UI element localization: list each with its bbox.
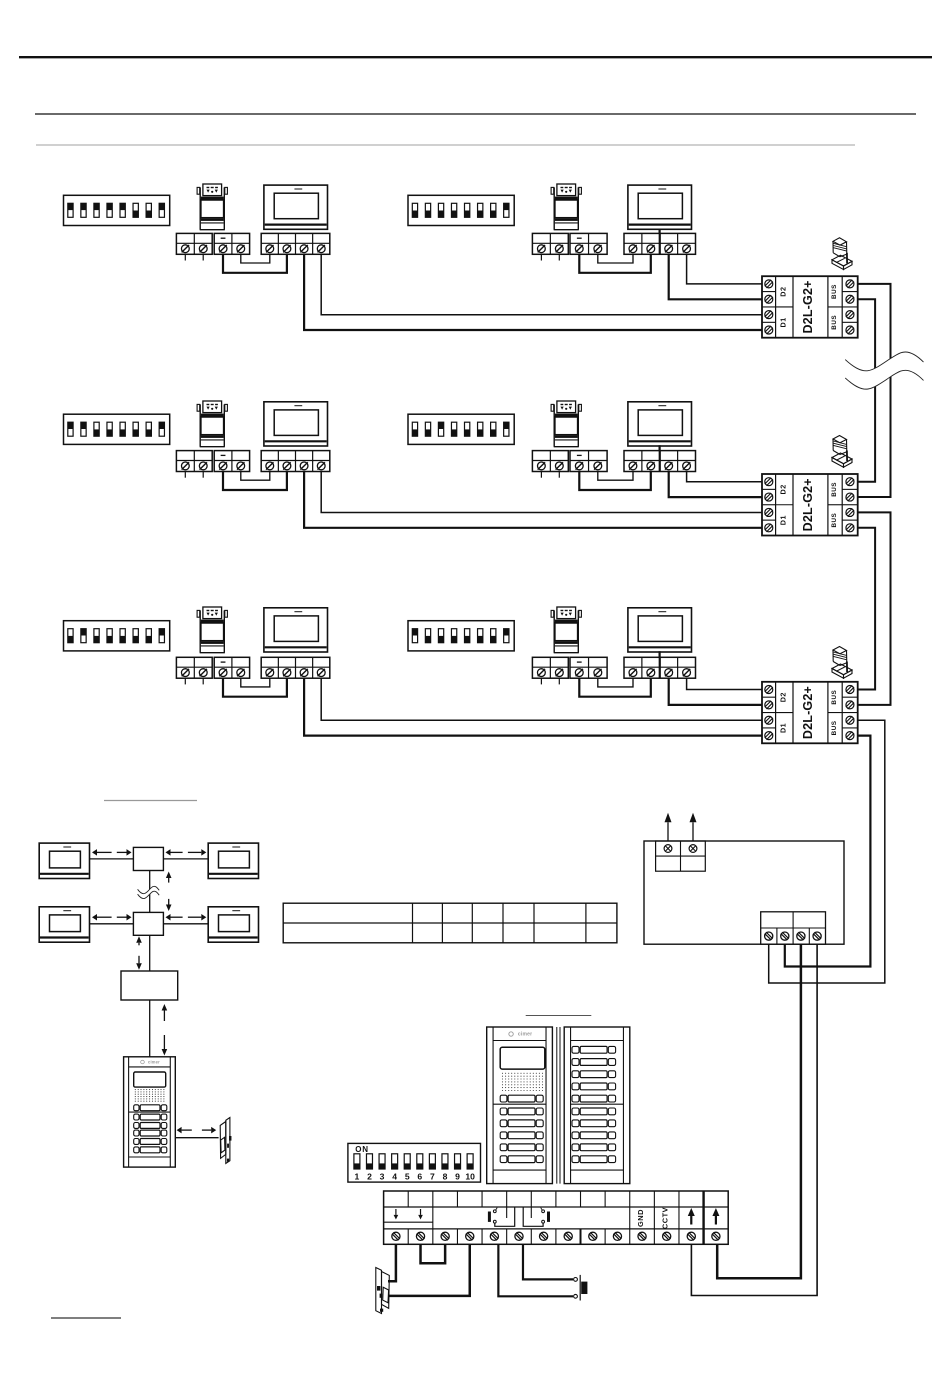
hook row 3 right inner — [598, 678, 633, 687]
svg-text:8: 8 — [443, 1171, 448, 1181]
bus jumper J2 — [832, 436, 852, 468]
mains stub row 2 left a — [184, 472, 186, 478]
svg-text:BUS: BUS — [831, 721, 838, 736]
wire DP1 to strike — [175, 1137, 218, 1139]
terminal block TB1A1 — [176, 233, 212, 254]
mains stub row 1 right a — [540, 254, 542, 260]
wire D2a row 1 — [687, 254, 762, 284]
power supply PS1B — [551, 184, 581, 230]
hook row 3 left outer — [223, 678, 287, 697]
entrance terminal strip — [384, 1191, 729, 1244]
arrow pair DP1 strike — [177, 1127, 217, 1134]
riser FD2-controller — [149, 935, 151, 971]
mains stub row 3 left b — [202, 678, 204, 684]
wire power to entrance b — [691, 944, 817, 1295]
svg-text:D1: D1 — [778, 515, 787, 525]
svg-text:D2L-G2+: D2L-G2+ — [801, 478, 815, 531]
arrow pair B left — [92, 914, 132, 921]
wire D1b row 3 — [304, 678, 762, 735]
arrow down FD1 to FD2 — [166, 899, 172, 911]
svg-text:BUS: BUS — [831, 690, 838, 705]
power supply PS2B — [551, 401, 581, 447]
wire power to entrance a — [717, 944, 801, 1278]
monitor M-A1 — [39, 843, 89, 878]
monitor M2B — [628, 402, 692, 446]
hook row 3 left inner — [241, 678, 270, 687]
svg-text:D1: D1 — [778, 723, 787, 733]
terminal block TB2B1 — [532, 451, 568, 472]
call buttons DP1 main — [134, 1114, 167, 1153]
svg-text:3: 3 — [380, 1171, 385, 1181]
svg-text:BUS: BUS — [831, 315, 838, 330]
riser bus wire 2-3 outer — [858, 512, 891, 704]
svg-text:4: 4 — [392, 1171, 397, 1181]
riser bus wire 1-2 inner — [858, 299, 875, 481]
terminal block TB2B3 — [624, 451, 696, 472]
riser wire to power supply b — [769, 720, 885, 983]
svg-text:BUS: BUS — [831, 482, 838, 497]
monitor M1A — [264, 185, 328, 229]
terminal block TB1A2 — [214, 233, 249, 254]
svg-text:D2L-G2+: D2L-G2+ — [801, 280, 815, 333]
arrow pair A left — [92, 849, 132, 856]
power supply PS3A — [197, 607, 227, 653]
brand logo DP1 — [141, 1059, 160, 1064]
svg-text:9: 9 — [455, 1171, 460, 1181]
bus jumper J1 — [832, 238, 852, 270]
terminal block TB3A2 — [214, 657, 249, 678]
strip link wire — [421, 1244, 446, 1263]
bus jumper J3 — [832, 647, 852, 679]
terminal block TB3A1 — [176, 657, 212, 678]
wire D2a row 2 — [687, 472, 762, 482]
header rule thin — [35, 113, 916, 115]
terminal block TB3A3 — [261, 657, 330, 678]
floor distributor box FD1 — [133, 847, 163, 870]
DIP switch block S1A — [64, 195, 170, 225]
module joint DP2 — [557, 1027, 560, 1184]
riser wire to power supply a — [785, 736, 871, 967]
floor distributor box FD2 — [133, 912, 163, 935]
arrow up FD2 to FD1 — [166, 872, 172, 883]
wire D1b row 2 — [304, 472, 762, 528]
speaker grille DP2 — [502, 1073, 543, 1091]
wire FD2 to monitor B2 — [163, 923, 208, 925]
wire monitor A1 to FD1 — [90, 858, 134, 860]
monitor M2A — [264, 402, 328, 446]
hook row 1 left inner — [241, 254, 270, 263]
wire D2b row 1 — [669, 254, 762, 299]
hook row 2 right outer — [579, 472, 651, 491]
header rule thick — [19, 56, 932, 58]
monitor M-B2 — [208, 907, 258, 942]
reference table — [283, 903, 617, 943]
svg-text:D1: D1 — [778, 317, 787, 327]
svg-text:D2: D2 — [778, 484, 787, 494]
riser controller box — [121, 971, 178, 1000]
mains stub row 1 right b — [558, 254, 560, 260]
terminal block TB1B1 — [532, 233, 568, 254]
hook row 2 left inner — [241, 472, 270, 481]
door strike LS1 — [220, 1118, 231, 1164]
call buttons DP1 top — [134, 1105, 167, 1111]
wire D1a row 3 — [321, 678, 762, 720]
wire exit button b — [523, 1244, 573, 1279]
mains arrows — [665, 813, 697, 841]
wire D1a row 2 — [321, 472, 762, 513]
wire FD1 to monitor A2 — [163, 858, 208, 860]
wire D2b row 3 — [669, 678, 762, 705]
power supply PS2A — [197, 401, 227, 447]
terminal block TB2A3 — [261, 451, 330, 472]
monitor M-A2 — [208, 843, 258, 878]
monitor feed stub row 1 — [658, 229, 660, 234]
monitor feed stub row 3 — [658, 651, 660, 657]
terminal block TB1B2 — [570, 233, 607, 254]
header rule gray — [36, 144, 855, 146]
svg-text:5: 5 — [405, 1171, 410, 1181]
monitor M1B — [628, 185, 692, 229]
mains stub row 3 left a — [184, 678, 186, 684]
wire D2a row 3 — [687, 678, 762, 689]
svg-text:6: 6 — [417, 1171, 422, 1181]
arrow pair B right — [166, 914, 207, 921]
panel lines DP2 right — [571, 1041, 624, 1171]
terminal block TB1A3 — [261, 233, 330, 254]
hook row 1 left outer — [223, 254, 287, 272]
mains stub row 2 right b — [558, 472, 560, 478]
DIP switch block S3A — [64, 621, 170, 651]
lock release contact left — [488, 1207, 515, 1226]
label GND — [636, 1209, 645, 1227]
riser bus wire 2-3 inner — [858, 528, 875, 690]
svg-text:CCTV: CCTV — [661, 1207, 670, 1229]
svg-text:ON: ON — [355, 1145, 369, 1154]
hook row 3 right outer — [579, 678, 651, 697]
wire D1a row 1 — [321, 254, 762, 314]
hook row 2 left outer — [223, 472, 287, 491]
door entry panel DP1 — [124, 1057, 176, 1167]
svg-text:7: 7 — [430, 1171, 435, 1181]
DIP switch block S3B — [408, 621, 514, 651]
monitor feed stub row 2 — [658, 445, 660, 450]
hook row 1 right outer — [579, 254, 651, 272]
terminal block TB1B3 — [624, 233, 696, 254]
wire D1b row 1 — [304, 254, 762, 330]
strip down arrows — [384, 1209, 433, 1222]
wire strike supply a — [388, 1244, 396, 1281]
wire D2b row 2 — [669, 472, 762, 498]
terminal block TB3B1 — [532, 657, 568, 678]
terminal block TB2A1 — [176, 451, 212, 472]
mains stub row 1 left b — [202, 254, 204, 260]
label rule mini diagram — [104, 800, 197, 802]
label rule door panel — [526, 1015, 592, 1017]
arrow pair A right — [166, 849, 207, 856]
power supply PS1A — [197, 184, 227, 230]
mains stub row 2 left b — [202, 472, 204, 478]
DIP switch block S2B — [408, 414, 514, 444]
svg-text:GND: GND — [636, 1209, 645, 1227]
monitor M3A — [264, 608, 328, 652]
D2L-G2+ distributor U1 — [762, 276, 858, 338]
mains stub row 1 left a — [184, 254, 186, 260]
svg-text:cimer: cimer — [518, 1032, 532, 1038]
system power supply box — [644, 841, 844, 944]
D2L-G2+ distributor U3 — [762, 682, 858, 744]
svg-text:D2: D2 — [778, 286, 787, 296]
hook row 1 right inner — [598, 254, 633, 263]
svg-text:BUS: BUS — [831, 513, 838, 528]
svg-text:2: 2 — [367, 1171, 372, 1181]
mains stub row 3 right b — [558, 678, 560, 684]
terminal block TB3B2 — [570, 657, 607, 678]
power supply PS3B — [551, 607, 581, 653]
D2L-G2+ distributor U2 — [762, 474, 858, 536]
riser FD1-FD2 — [149, 871, 151, 913]
brand logo DP2 — [509, 1032, 532, 1038]
bus terminal on power box — [761, 912, 826, 944]
monitor M-B1 — [39, 907, 89, 942]
svg-text:BUS: BUS — [831, 284, 838, 299]
address DIP switch S7 — [348, 1143, 481, 1182]
call buttons DP2 left top — [500, 1095, 543, 1102]
strip up arrows — [688, 1208, 720, 1225]
DIP switch block S2A — [64, 414, 170, 444]
mini cable break — [138, 886, 160, 898]
call buttons DP2 left main — [500, 1108, 543, 1163]
cable break — [845, 352, 923, 389]
call buttons DP2 right top — [572, 1046, 616, 1102]
exit push button — [574, 1275, 588, 1301]
hook row 2 right inner — [598, 472, 633, 481]
arrow up door panel to controller — [162, 1004, 168, 1021]
door strike LS2 — [376, 1268, 390, 1314]
wire strike supply b — [388, 1244, 469, 1296]
terminal block TB3B3 — [624, 657, 696, 678]
arrow down to door panel — [162, 1035, 168, 1056]
svg-text:cimer: cimer — [148, 1059, 160, 1064]
display window DP2 — [500, 1047, 545, 1069]
panel lines DP2 left — [493, 1041, 546, 1171]
wire exit button a — [498, 1244, 573, 1296]
svg-text:D2L-G2+: D2L-G2+ — [801, 686, 815, 739]
wire monitor B1 to FD2 — [90, 923, 134, 925]
call buttons DP2 right main — [572, 1108, 616, 1163]
terminal block TB2B2 — [570, 451, 607, 472]
svg-text:1: 1 — [355, 1171, 360, 1181]
monitor M3B — [628, 608, 692, 652]
arrow down to controller — [136, 956, 142, 970]
arrow up controller to FD2 — [136, 936, 142, 945]
display window DP1 — [134, 1072, 166, 1087]
panel lines DP1 — [129, 1067, 171, 1157]
door entry panel DP2 left module — [487, 1027, 553, 1184]
svg-text:D2: D2 — [778, 692, 787, 702]
mains stub row 2 right a — [540, 472, 542, 478]
lock release contact right — [523, 1207, 550, 1226]
door entry panel DP2 right module — [564, 1027, 630, 1184]
terminal block TB2A2 — [214, 451, 249, 472]
svg-text:10: 10 — [465, 1171, 475, 1181]
label CCTV — [661, 1207, 670, 1229]
speaker grille DP1 — [135, 1089, 165, 1102]
riser bus wire 1-2 outer — [858, 284, 891, 497]
mains terminal on power box — [656, 841, 706, 871]
mains stub row 3 right a — [540, 678, 542, 684]
riser controller-door panel — [149, 1000, 151, 1057]
DIP switch block S1B — [408, 195, 514, 225]
footer label rule — [51, 1317, 121, 1319]
